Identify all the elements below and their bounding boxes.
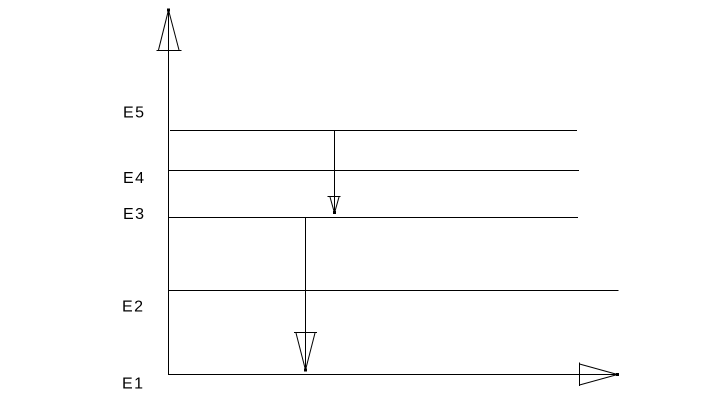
x-axis arrowhead (hollow right triangle)	[580, 363, 620, 387]
label E1	[122, 376, 145, 393]
y-axis (energy axis)	[168, 9, 170, 375]
transition arrow E5 to E3 : shaft	[334, 131, 336, 214]
svg-text:E3: E3	[123, 206, 146, 223]
label E3	[123, 206, 146, 223]
level line E5	[170, 130, 577, 132]
level line E3	[169, 217, 578, 219]
transition arrow E3 to E1 : arrowhead	[294, 333, 317, 372]
transition arrow E5 to E3 : arrowhead	[328, 197, 341, 215]
svg-text:E4: E4	[123, 170, 146, 187]
svg-text:E1: E1	[122, 376, 145, 393]
label E2	[122, 299, 145, 316]
level line E2	[169, 290, 619, 292]
svg-text:E5: E5	[123, 105, 146, 122]
svg-text:E2: E2	[122, 299, 145, 316]
y-axis arrowhead (hollow up triangle)	[157, 9, 182, 51]
level line E4	[169, 170, 579, 172]
x-axis	[168, 374, 618, 376]
label E5	[123, 105, 146, 122]
transition arrow E3 to E1 : shaft	[305, 218, 307, 371]
label E4	[123, 170, 146, 187]
